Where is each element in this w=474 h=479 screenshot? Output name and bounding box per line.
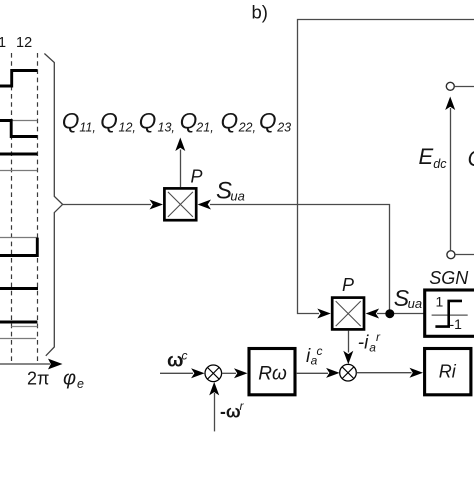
svg-text:13,: 13, xyxy=(158,120,175,134)
label E_dc xyxy=(419,144,448,171)
wire E_dc vertical xyxy=(450,108,452,250)
block Rw xyxy=(249,349,295,395)
arrow into P2 left xyxy=(317,309,331,319)
label omega^c xyxy=(167,349,188,372)
grid dashed line x=11.6 xyxy=(11,53,13,363)
arrow into sum2 xyxy=(326,368,340,378)
svg-text:23: 23 xyxy=(276,120,291,134)
svg-text:dc: dc xyxy=(433,157,447,171)
svg-text:11: 11 xyxy=(0,35,6,51)
svg-text:e: e xyxy=(77,377,84,391)
svg-text:b): b) xyxy=(252,2,268,23)
summing junction sum1 xyxy=(205,365,222,382)
arrow into P2 right xyxy=(366,309,380,319)
svg-text:ua: ua xyxy=(230,188,244,203)
svg-text:Q: Q xyxy=(100,109,118,134)
arrow P2 output into sum2 xyxy=(343,351,353,365)
svg-text:C: C xyxy=(468,146,474,171)
svg-text:12: 12 xyxy=(16,35,32,51)
wire P2 output down to sum2 xyxy=(348,331,350,353)
feedback wire from top right to P2 xyxy=(298,20,474,314)
svg-text:Q: Q xyxy=(259,109,277,134)
block Ri xyxy=(425,349,471,395)
brace collecting waveforms xyxy=(44,54,62,356)
terminal lower E_dc xyxy=(447,251,474,259)
wire omega^c input xyxy=(160,372,193,374)
arrow into P1 left xyxy=(150,200,164,210)
arrow into P1 right xyxy=(198,200,212,210)
label S_ua at P1 xyxy=(216,178,245,205)
svg-text:Q: Q xyxy=(139,109,157,134)
svg-text:-1: -1 xyxy=(450,316,463,332)
wire P1 output up xyxy=(180,150,182,188)
waveform Q21 trace xyxy=(0,238,37,256)
svg-text:ua: ua xyxy=(408,296,422,311)
grid dashed line x=37.3 xyxy=(37,53,39,363)
wire sum2 to Ri xyxy=(356,372,411,374)
waveform Q23 trace xyxy=(0,321,37,324)
wire SGN output to P2 xyxy=(377,313,424,315)
waveform Q23 zero line xyxy=(11,326,37,328)
label -i_a^r xyxy=(358,330,381,355)
arrow P1 output xyxy=(175,138,185,152)
svg-text:22,: 22, xyxy=(238,120,256,134)
axis label phi_e xyxy=(63,368,84,392)
svg-text:-i: -i xyxy=(358,333,369,354)
arrow into Rw xyxy=(234,368,248,378)
svg-text:SGN: SGN xyxy=(429,268,469,288)
svg-text:φ: φ xyxy=(63,368,76,390)
label S_ua at node xyxy=(394,285,422,311)
svg-text:P: P xyxy=(191,167,203,187)
waveform Q13 zero line xyxy=(0,170,37,172)
wire -omega^r up into sum1 xyxy=(214,393,216,431)
svg-text:Q: Q xyxy=(180,109,198,134)
svg-text:c: c xyxy=(182,349,188,363)
waveform Q23 lower line xyxy=(0,338,36,340)
waveform Q12 zero line xyxy=(11,120,37,122)
wire brace to multiplier P1 xyxy=(63,204,151,206)
waveform Q13 trace xyxy=(0,153,37,156)
waveform Q21 zero line xyxy=(0,237,37,239)
waveform Q11 trace xyxy=(0,71,37,87)
label -omega^r xyxy=(220,399,245,422)
terminal upper E_dc xyxy=(446,82,474,90)
wire sum1 to Rw xyxy=(222,372,236,374)
svg-text:-ω: -ω xyxy=(220,402,241,422)
svg-text:c: c xyxy=(317,344,323,358)
svg-text:Q: Q xyxy=(221,109,239,134)
block SGN xyxy=(425,290,474,336)
svg-text:Ri: Ri xyxy=(439,362,457,382)
svg-text:Rω: Rω xyxy=(258,364,287,385)
waveform Q12 trace xyxy=(0,121,37,137)
svg-text:12,: 12, xyxy=(119,120,136,134)
arrow into Ri xyxy=(410,368,424,378)
waveform Q22 trace xyxy=(0,287,38,290)
wire S_ua from node to P1 xyxy=(210,205,390,314)
svg-text:Q: Q xyxy=(62,109,80,134)
arrow E_dc up xyxy=(445,97,455,111)
wire Rw to sum2 xyxy=(297,372,328,374)
summing junction sum2 xyxy=(340,364,357,381)
svg-text:1: 1 xyxy=(436,294,444,310)
label i_a^c xyxy=(306,344,323,368)
multiplier P1 xyxy=(164,188,196,220)
svg-text:2π: 2π xyxy=(27,369,49,389)
svg-text:21,: 21, xyxy=(195,120,213,134)
node labels 11 12 xyxy=(0,35,32,51)
svg-text:P: P xyxy=(342,275,354,295)
arrow -omega^r into sum1 xyxy=(209,382,219,396)
junction node S_ua xyxy=(385,309,394,318)
phase axis xyxy=(0,359,63,370)
svg-text:E: E xyxy=(419,144,434,169)
svg-text:11,: 11, xyxy=(79,120,95,134)
multiplier P2 xyxy=(332,298,364,330)
label Q11,Q12,Q13,Q21,Q22,Q23 xyxy=(62,109,291,135)
arrow into sum1 xyxy=(191,368,205,378)
